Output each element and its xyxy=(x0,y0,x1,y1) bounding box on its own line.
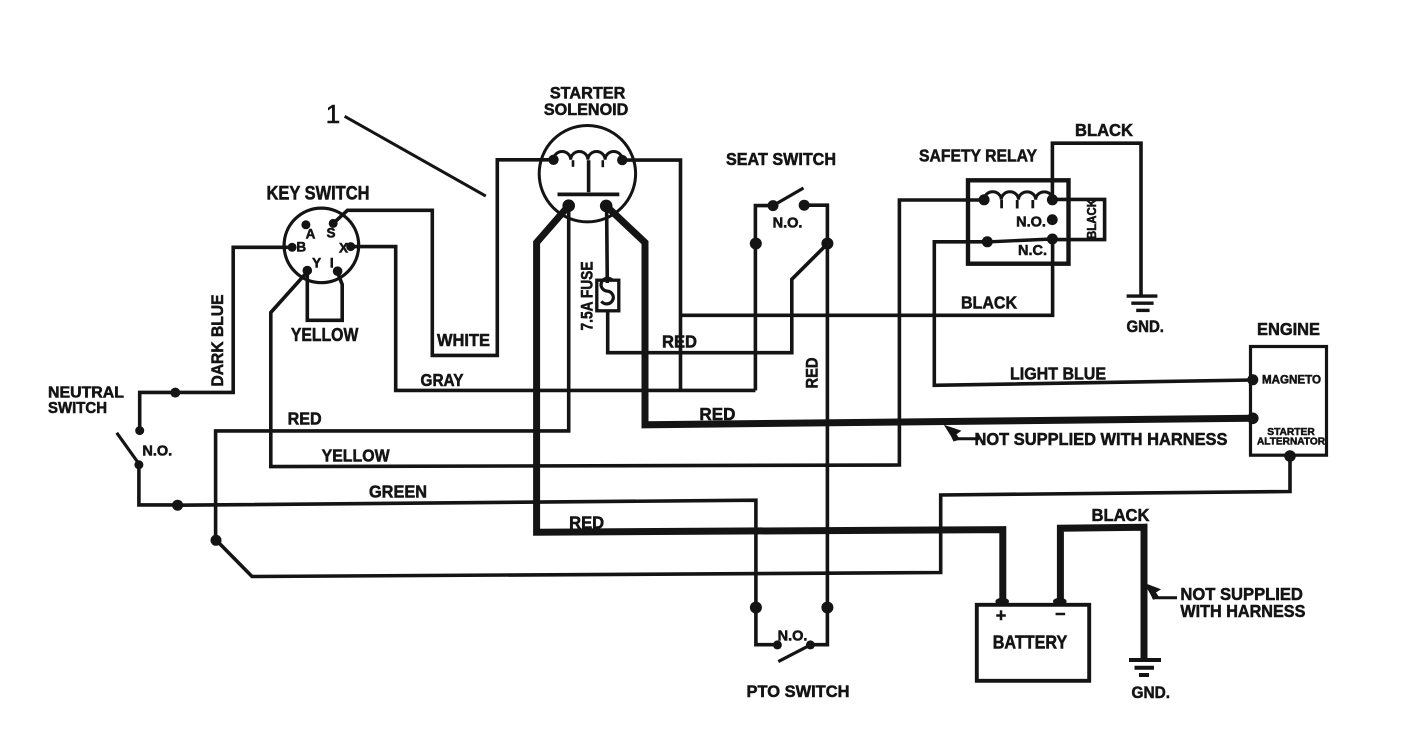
starter solenoid SOL1 xyxy=(544,84,629,119)
svg-text:SAFETY RELAY: SAFETY RELAY xyxy=(919,145,1037,165)
engine E1 xyxy=(1257,319,1320,339)
PTO switch blade (N.O.) xyxy=(778,645,810,662)
engine body xyxy=(1251,347,1327,456)
wire: PTO right contact to blade pivot xyxy=(810,608,827,645)
arrow: not supplied with harness (ground wire) xyxy=(1144,583,1161,600)
svg-text:ENGINE: ENGINE xyxy=(1257,319,1320,339)
junction: dark blue / neutral switch wire xyxy=(170,388,180,398)
arrow: not supplied with harness (starter wire) xyxy=(944,425,962,442)
svg-text:GND.: GND. xyxy=(1126,317,1164,336)
svg-text:SOLENOID: SOLENOID xyxy=(544,100,629,119)
wire: PTO left contact to blade contact xyxy=(756,608,778,645)
wire: GREEN from neutral switch to PTO switch xyxy=(178,500,756,607)
svg-text:+: + xyxy=(996,606,1007,626)
node 1 callout label xyxy=(326,99,340,129)
svg-text:GND.: GND. xyxy=(1132,684,1171,702)
label BLACK (relay wire) xyxy=(961,292,1017,312)
key switch KS1 body xyxy=(284,208,359,283)
svg-text:RED: RED xyxy=(699,404,735,424)
safety relay N.C. right contact xyxy=(1047,234,1058,245)
svg-text:NOT SUPPLIED WITH HARNESS: NOT SUPPLIED WITH HARNESS xyxy=(975,429,1228,449)
wire: YELLOW from key switch pin Y to safety relay coil xyxy=(271,200,984,467)
svg-text:N.O.: N.O. xyxy=(1016,215,1046,231)
wire: BLACK (thick) from battery - to ground xyxy=(1060,527,1144,658)
label BLACK (top) xyxy=(1075,120,1133,140)
svg-text:B: B xyxy=(296,240,306,255)
safety relay coil terminal right xyxy=(1047,194,1058,205)
battery BT1 xyxy=(977,605,1089,681)
engine magneto terminal xyxy=(1247,374,1258,385)
key switch pin Y xyxy=(303,266,313,276)
svg-text:N.O.: N.O. xyxy=(773,216,803,232)
svg-text:SWITCH: SWITCH xyxy=(48,400,107,417)
svg-text:RED: RED xyxy=(803,357,821,388)
svg-text:RED: RED xyxy=(662,332,697,352)
seat switch upper right contact xyxy=(799,200,810,211)
svg-text:N.C.: N.C. xyxy=(1018,243,1047,259)
svg-text:DARK BLUE: DARK BLUE xyxy=(208,295,227,387)
starter solenoid motor terminal xyxy=(600,200,613,213)
key switch pin I xyxy=(333,266,343,276)
neutral switch NS1 xyxy=(48,385,124,417)
wire: WHITE from key switch pin S to starter solenoid coil xyxy=(333,160,553,356)
svg-text:PTO SWITCH: PTO SWITCH xyxy=(747,682,850,701)
wire: yellow jumper loop between pins Y and I xyxy=(307,272,342,320)
seat switch SW1 xyxy=(726,149,836,169)
svg-text:Y: Y xyxy=(312,256,321,271)
label YELLOW (jumper) xyxy=(291,325,359,345)
safety relay K1 xyxy=(919,145,1037,165)
svg-text:7.5A FUSE: 7.5A FUSE xyxy=(578,262,596,331)
seat switch upper blade (N.O.) xyxy=(773,188,804,206)
svg-text:BLACK: BLACK xyxy=(1092,505,1150,525)
seat switch lower left contact xyxy=(750,238,762,250)
wire: RED (thick) from solenoid battery terminal to battery + xyxy=(537,206,1003,602)
safety relay coil terminal left xyxy=(979,194,990,205)
svg-text:WITH HARNESS: WITH HARNESS xyxy=(1180,601,1305,621)
wire: RED from fuse to seat switch lower blade xyxy=(608,244,828,353)
label RED (left) xyxy=(288,408,322,428)
wire: RED from starter solenoid S-terminal to engine (long thin path) xyxy=(216,206,1290,577)
engine bottom terminal xyxy=(1284,450,1296,462)
seat switch upper left contact xyxy=(768,200,779,211)
svg-text:1: 1 xyxy=(326,99,340,129)
junction: red wire corner dot xyxy=(211,535,222,546)
wire: BLACK from solenoid riser to safety relay N.C. contact xyxy=(681,238,1053,315)
wire: BLACK from relay coil to ground xyxy=(1052,143,1141,295)
svg-text:−: − xyxy=(1055,604,1066,624)
wire: solenoid coil right terminal down to gray wire xyxy=(622,160,680,390)
label NOT SUPPLIED WITH HARNESS (middle) xyxy=(975,429,1228,449)
wire: DARK BLUE from key switch pin B down to neutral switch xyxy=(140,247,292,430)
starter solenoid coil terminal left xyxy=(548,155,558,165)
label LIGHT BLUE xyxy=(1010,363,1106,383)
svg-text:I: I xyxy=(330,255,334,270)
svg-text:SEAT SWITCH: SEAT SWITCH xyxy=(726,149,836,169)
battery - post xyxy=(1053,598,1067,605)
label BLACK (rotated, relay loop) xyxy=(1085,199,1099,239)
svg-text:BLACK: BLACK xyxy=(961,292,1017,312)
label 7.5A FUSE (rotated) xyxy=(578,262,596,331)
key switch pin S xyxy=(329,219,338,228)
svg-text:MAGNETO: MAGNETO xyxy=(1262,372,1321,386)
svg-text:YELLOW: YELLOW xyxy=(291,325,359,345)
label RED (fuse wire) xyxy=(662,332,697,352)
svg-text:S: S xyxy=(326,225,335,240)
label WHITE xyxy=(437,330,490,350)
neutral switch blade (N.O.) xyxy=(117,433,138,463)
fuse F1 element xyxy=(601,278,613,304)
starter solenoid plunger stem xyxy=(587,160,591,192)
safety relay body xyxy=(968,180,1069,263)
battery + post xyxy=(995,598,1009,605)
label BLACK (battery ground) xyxy=(1092,505,1150,525)
svg-text:BLACK: BLACK xyxy=(1075,120,1133,140)
wire: GRAY from key switch pin X to seat switch xyxy=(351,247,756,391)
svg-text:RED: RED xyxy=(288,408,322,428)
svg-text:WHITE: WHITE xyxy=(437,330,490,350)
wire: BLACK loop from relay coil to N.C. contact xyxy=(1052,199,1104,239)
key switch pin X xyxy=(346,242,355,251)
svg-text:X: X xyxy=(339,240,348,255)
wire: RED (thick) from solenoid motor terminal to engine starter xyxy=(606,206,1252,425)
label NOT SUPPLIED / WITH HARNESS (bottom) xyxy=(1180,584,1305,621)
ground symbol (battery) xyxy=(1129,660,1161,675)
label YELLOW (long wire) xyxy=(322,446,390,466)
wire: neutral switch lower contact to green wire xyxy=(139,465,178,505)
seat switch lower right contact xyxy=(821,238,833,250)
ground symbol (relay) xyxy=(1127,296,1158,310)
svg-text:RED: RED xyxy=(569,513,604,533)
label GRAY xyxy=(421,370,464,390)
safety relay N.C. blade (closed) xyxy=(987,239,1052,242)
neutral switch upper contact xyxy=(135,426,144,435)
svg-text:YELLOW: YELLOW xyxy=(322,446,390,466)
engine starter alternator terminal xyxy=(1247,413,1259,425)
label RED (battery feed) xyxy=(569,513,604,533)
svg-text:KEY SWITCH: KEY SWITCH xyxy=(267,184,370,205)
svg-text:N.O.: N.O. xyxy=(142,444,172,460)
svg-text:GREEN: GREEN xyxy=(369,481,427,501)
wire: callout pointer line for label 1 xyxy=(345,116,486,196)
svg-text:BATTERY: BATTERY xyxy=(993,631,1068,652)
neutral switch lower contact xyxy=(134,460,143,469)
wire: seat switch upper right contact down to PTO switch (red riser) xyxy=(804,205,827,607)
svg-text:LIGHT BLUE: LIGHT BLUE xyxy=(1010,363,1106,383)
starter solenoid body circle xyxy=(539,126,635,222)
key switch pin B xyxy=(288,243,297,252)
starter solenoid coil terminal right xyxy=(617,155,627,165)
svg-text:ALTERNATOR: ALTERNATOR xyxy=(1257,436,1325,448)
label DARK BLUE (rotated) xyxy=(208,295,227,387)
safety relay coil xyxy=(984,192,1053,200)
svg-text:GRAY: GRAY xyxy=(421,370,464,390)
wire: seat switch upper left contact down (gray riser) xyxy=(755,206,773,391)
label RED (starter feed) xyxy=(699,404,735,424)
wire: LIGHT BLUE from relay N.C. to engine magneto xyxy=(934,242,1252,385)
safety relay N.O. contact xyxy=(1047,214,1058,225)
starter solenoid coil xyxy=(554,152,623,160)
PTO switch left contact xyxy=(750,602,762,614)
fuse F1 7.5A body xyxy=(597,280,619,311)
key switch pin A xyxy=(301,220,310,229)
svg-text:BLACK: BLACK xyxy=(1085,199,1099,239)
starter solenoid battery terminal xyxy=(562,199,575,212)
label RED (rotated, riser) xyxy=(803,357,821,388)
wire: 7.5A fuse feed from solenoid motor terminal xyxy=(605,206,609,283)
svg-text:N.O.: N.O. xyxy=(778,628,808,644)
starter solenoid contact bar xyxy=(558,192,620,196)
label GREEN xyxy=(369,481,427,501)
PTO switch blade left contact xyxy=(773,640,782,649)
PTO switch blade pivot contact xyxy=(806,640,815,649)
safety relay N.C. left contact xyxy=(982,236,993,247)
svg-text:A: A xyxy=(306,227,316,242)
PTO switch right contact xyxy=(821,602,833,614)
junction: green wire start xyxy=(172,500,183,511)
